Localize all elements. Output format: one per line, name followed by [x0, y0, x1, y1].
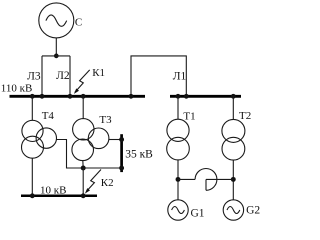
wire T4 secondary to 10kV bus — [31, 158, 33, 196]
reactor LR — [195, 169, 217, 191]
bus 10 kV — [21, 195, 97, 198]
short-circuit arrow K2 — [85, 170, 101, 194]
svg-text:G2: G2 — [246, 205, 260, 217]
wire right bus to T2 — [232, 96, 234, 119]
wire T1 to G1 — [177, 160, 179, 200]
generator G1 — [168, 200, 188, 220]
svg-text:К2: К2 — [101, 177, 114, 189]
svg-text:10 кВ: 10 кВ — [40, 185, 66, 197]
svg-text:G1: G1 — [191, 207, 205, 219]
bus 35 kV — [120, 134, 123, 172]
node T3 on 110kV bus — [81, 94, 86, 99]
node reactor right — [231, 177, 236, 182]
node at generator branch — [54, 54, 59, 59]
wire T3 tertiary to 35kV bar — [109, 139, 120, 141]
transformer T3 — [72, 119, 109, 161]
generator C — [39, 3, 74, 38]
bus station (right) — [170, 95, 241, 98]
transformer T1 — [167, 119, 190, 160]
transformer T4 — [22, 120, 57, 158]
wire line L2 — [69, 56, 71, 96]
svg-text:Л2: Л2 — [56, 70, 70, 82]
wire T2 to G2 — [232, 160, 234, 200]
generator G2 — [223, 200, 243, 220]
svg-text:К1: К1 — [92, 67, 105, 79]
wire line L3 — [41, 56, 43, 96]
wire T3 secondary stub — [82, 160, 84, 168]
wire from reactor centre right — [206, 178, 233, 180]
wire horizontal at node — [42, 55, 70, 57]
wire T4 tertiary to 35kV link — [57, 140, 121, 169]
wire line L1 — [131, 56, 186, 96]
node L3 on 110kV bus — [40, 94, 45, 99]
svg-text:35 кВ: 35 кВ — [125, 149, 153, 161]
svg-text:С: С — [75, 17, 82, 29]
node junction below T3 — [81, 166, 86, 171]
svg-text:110 кВ: 110 кВ — [1, 82, 33, 94]
short-circuit arrow K1 — [74, 70, 90, 94]
wire 110kV bus to T4 — [31, 96, 33, 120]
node T3 tertiary on 35kV bar — [119, 137, 124, 142]
node T2 on right bus — [231, 94, 236, 99]
svg-text:Л1: Л1 — [173, 70, 187, 82]
node link on 35kV bar — [119, 166, 124, 171]
node K2 on 10kV bus — [81, 193, 86, 198]
node L2 on 110kV bus — [68, 94, 73, 99]
wire right bus to T1 — [177, 96, 179, 119]
node L1 on 110kV bus — [129, 94, 134, 99]
node reactor left — [176, 177, 181, 182]
node T4 on 110kV bus — [30, 94, 35, 99]
svg-text:Т1: Т1 — [183, 110, 195, 122]
transformer T2 — [222, 119, 245, 160]
svg-text:Т2: Т2 — [239, 110, 251, 122]
wire from C to node — [55, 38, 57, 56]
svg-text:Т3: Т3 — [99, 114, 112, 126]
node T1 on right bus — [176, 94, 181, 99]
svg-text:Т4: Т4 — [42, 110, 55, 122]
svg-text:Л3: Л3 — [27, 70, 41, 82]
wire 110kV bus to T3 — [82, 96, 84, 118]
node L1 on right bus — [184, 94, 189, 99]
bus 110 kV — [10, 95, 146, 98]
wire to reactor left — [178, 178, 195, 180]
wire junction to 10kV bus — [82, 168, 84, 196]
node T4 on 10kV bus — [30, 193, 35, 198]
